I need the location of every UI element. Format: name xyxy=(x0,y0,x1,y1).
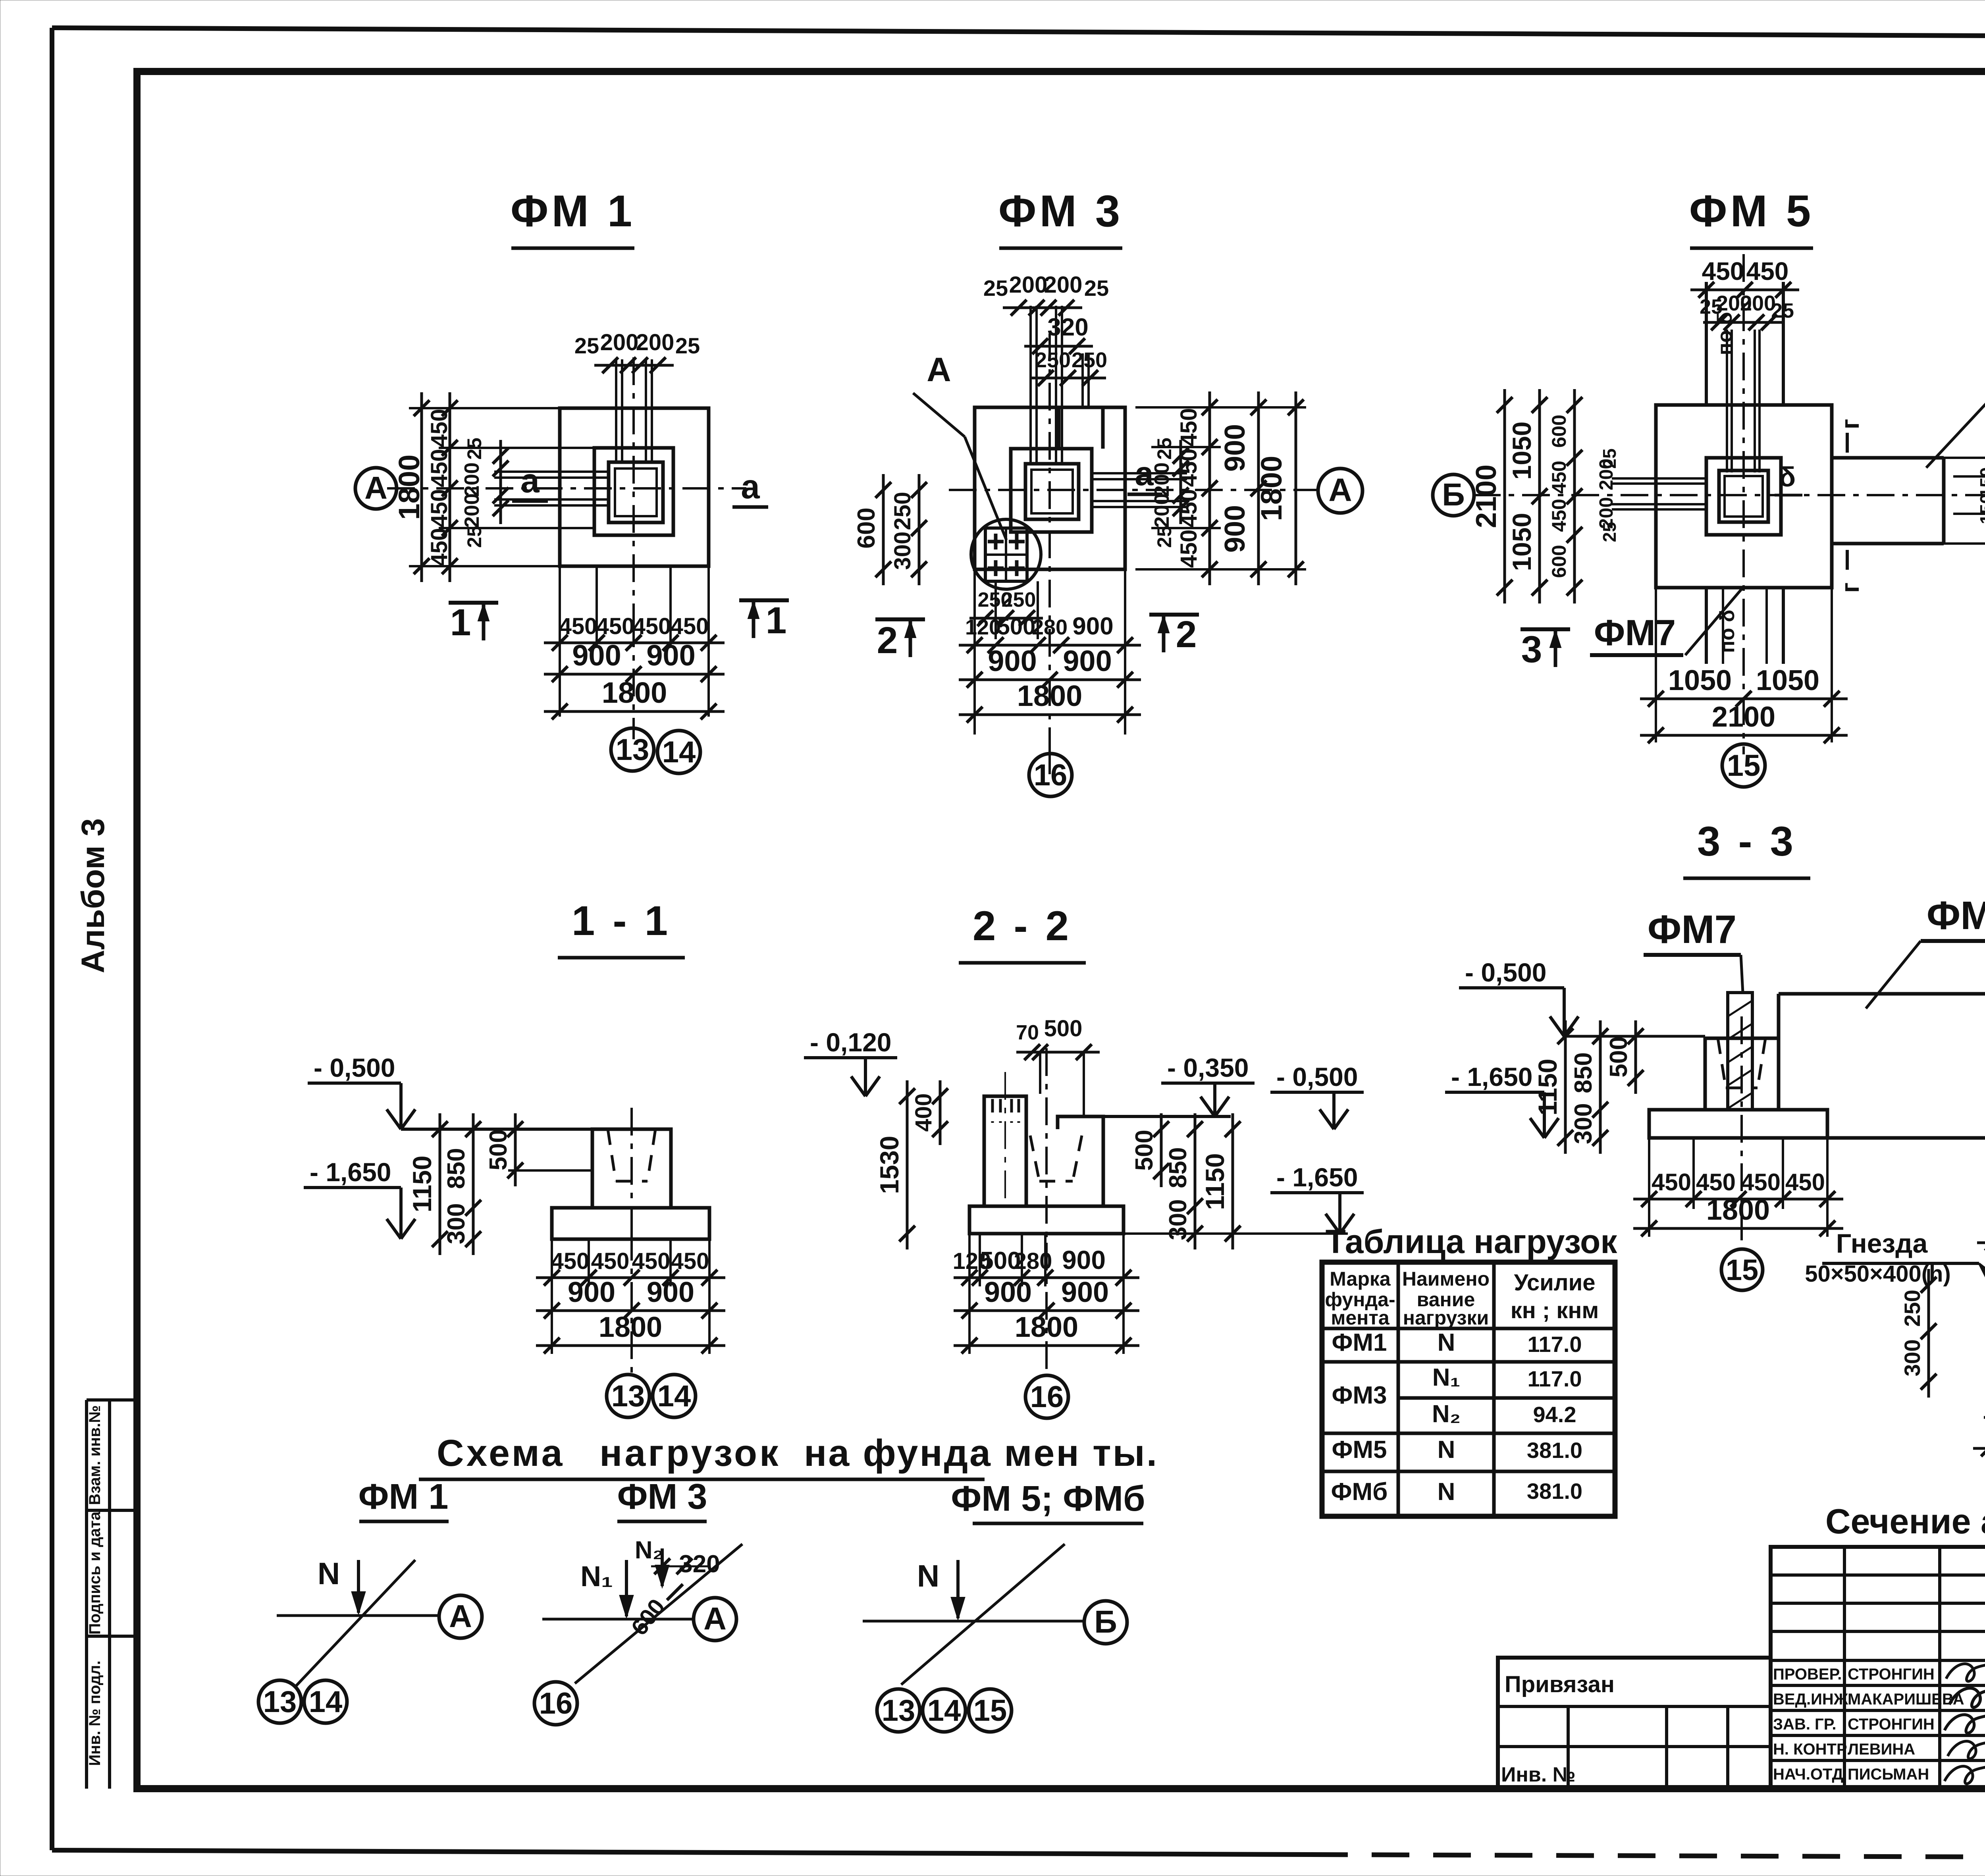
svg-text:3 - 3: 3 - 3 xyxy=(1697,818,1796,865)
svg-text:1800: 1800 xyxy=(602,676,667,709)
svg-text:200: 200 xyxy=(1151,463,1174,497)
svg-text:- 0,500: - 0,500 xyxy=(314,1053,395,1082)
svg-text:450: 450 xyxy=(633,613,671,639)
svg-text:1050: 1050 xyxy=(1668,665,1732,696)
svg-text:1800: 1800 xyxy=(1255,456,1288,521)
svg-text:500: 500 xyxy=(1131,1130,1158,1170)
svg-text:N: N xyxy=(1438,1329,1455,1356)
svg-text:кн ; кнм: кн ; кнм xyxy=(1511,1298,1599,1323)
svg-text:200: 200 xyxy=(461,463,484,497)
svg-text:15: 15 xyxy=(1727,749,1761,783)
svg-text:450: 450 xyxy=(426,489,452,528)
svg-text:25: 25 xyxy=(1153,438,1176,460)
svg-text:14: 14 xyxy=(927,1694,961,1728)
svg-text:117.0: 117.0 xyxy=(1527,1366,1582,1391)
svg-text:Н. КОНТР: Н. КОНТР xyxy=(1773,1741,1847,1758)
svg-text:1150: 1150 xyxy=(1533,1059,1562,1115)
svg-text:900: 900 xyxy=(647,1276,694,1308)
svg-text:450: 450 xyxy=(1785,1169,1825,1195)
svg-text:Б: Б xyxy=(1094,1604,1117,1639)
svg-text:450: 450 xyxy=(1176,489,1202,528)
svg-text:450: 450 xyxy=(1741,1169,1781,1195)
svg-text:25: 25 xyxy=(1599,522,1620,542)
svg-text:25: 25 xyxy=(463,526,486,548)
svg-text:1050: 1050 xyxy=(1507,513,1536,571)
svg-text:ФМ7: ФМ7 xyxy=(1648,907,1736,952)
svg-text:600: 600 xyxy=(1548,415,1570,447)
svg-text:СТРОНГИН: СТРОНГИН xyxy=(1848,1716,1935,1733)
svg-text:500: 500 xyxy=(1044,1016,1083,1041)
svg-text:200: 200 xyxy=(1044,272,1083,298)
svg-text:14: 14 xyxy=(657,1379,691,1413)
svg-text:450: 450 xyxy=(559,613,597,639)
svg-text:450: 450 xyxy=(671,1248,709,1274)
svg-text:150: 150 xyxy=(1976,494,1985,524)
svg-text:850: 850 xyxy=(443,1148,470,1189)
svg-text:300: 300 xyxy=(1900,1339,1925,1376)
svg-text:N: N xyxy=(917,1558,939,1593)
svg-text:381.0: 381.0 xyxy=(1527,1479,1582,1504)
svg-text:А: А xyxy=(927,351,951,389)
svg-text:450: 450 xyxy=(1696,1169,1736,1195)
svg-text:- 0,500: - 0,500 xyxy=(1276,1062,1358,1091)
svg-text:900: 900 xyxy=(572,639,621,672)
svg-text:Инв. №: Инв. № xyxy=(1501,1763,1576,1786)
svg-text:2: 2 xyxy=(877,619,898,661)
svg-text:900: 900 xyxy=(1063,644,1112,677)
svg-text:Взам. инв.№: Взам. инв.№ xyxy=(86,1405,104,1505)
svg-text:16: 16 xyxy=(1030,1380,1064,1414)
svg-text:400: 400 xyxy=(911,1093,937,1132)
svg-text:- 0,500: - 0,500 xyxy=(1465,958,1546,987)
svg-text:16: 16 xyxy=(539,1687,573,1720)
svg-text:Сечение а-а, б-б ; г-г; д-д: Сечение а-а, б-б ; г-г; д-д см лист 7. xyxy=(1825,1502,1985,1541)
svg-text:450: 450 xyxy=(426,409,452,447)
svg-text:120: 120 xyxy=(965,615,1001,639)
svg-text:600: 600 xyxy=(853,507,880,548)
svg-text:ФМ5: ФМ5 xyxy=(1332,1436,1387,1463)
svg-text:- 1,650: - 1,650 xyxy=(1276,1163,1358,1192)
svg-text:Подпись и дата: Подпись и дата xyxy=(86,1511,104,1635)
svg-text:по δ: по δ xyxy=(1713,312,1736,355)
svg-text:13: 13 xyxy=(616,733,649,767)
svg-text:ФМ 5: ФМ 5 xyxy=(1689,186,1814,236)
svg-text:Наимено: Наимено xyxy=(1402,1268,1490,1290)
svg-text:1800: 1800 xyxy=(1706,1194,1770,1226)
svg-text:2 - 2: 2 - 2 xyxy=(973,903,1072,949)
svg-text:Марка: Марка xyxy=(1330,1268,1391,1290)
svg-text:ФМ 1: ФМ 1 xyxy=(358,1477,449,1517)
svg-text:200: 200 xyxy=(1009,272,1048,298)
svg-text:117.0: 117.0 xyxy=(1527,1332,1582,1357)
svg-text:1 - 1: 1 - 1 xyxy=(572,898,671,944)
svg-text:нагрузки: нагрузки xyxy=(1403,1307,1489,1329)
svg-text:N: N xyxy=(318,1556,340,1591)
svg-text:450: 450 xyxy=(591,1248,630,1274)
svg-text:СТРОНГИН: СТРОНГИН xyxy=(1848,1666,1935,1683)
svg-text:450: 450 xyxy=(426,528,452,567)
svg-text:НАЧ.ОТД: НАЧ.ОТД xyxy=(1773,1766,1843,1783)
svg-text:15: 15 xyxy=(1726,1253,1758,1286)
svg-text:ФМ 3: ФМ 3 xyxy=(998,186,1123,236)
svg-text:850: 850 xyxy=(1164,1147,1192,1188)
svg-text:150: 150 xyxy=(1976,467,1985,498)
svg-text:900: 900 xyxy=(1219,424,1251,472)
svg-text:ФМ 5; ФМб: ФМ 5; ФМб xyxy=(951,1479,1145,1519)
svg-text:25: 25 xyxy=(675,333,700,358)
svg-text:1800: 1800 xyxy=(393,455,426,520)
svg-text:200: 200 xyxy=(1151,494,1174,528)
svg-text:А: А xyxy=(449,1598,472,1634)
svg-text:900: 900 xyxy=(988,644,1037,677)
svg-text:А: А xyxy=(364,470,387,505)
svg-text:200: 200 xyxy=(461,494,484,528)
svg-text:ФМ7: ФМ7 xyxy=(1594,613,1676,653)
svg-text:ФМ3: ФМ3 xyxy=(1332,1382,1387,1409)
svg-text:14: 14 xyxy=(309,1685,343,1719)
svg-text:2100: 2100 xyxy=(1470,465,1502,528)
svg-text:250: 250 xyxy=(1002,588,1036,611)
svg-text:Б: Б xyxy=(1442,477,1465,512)
svg-text:ПИСЬМАН: ПИСЬМАН xyxy=(1848,1766,1929,1783)
svg-text:г: г xyxy=(1836,582,1864,593)
svg-text:ФМ 1: ФМ 1 xyxy=(511,186,635,236)
svg-text:2: 2 xyxy=(1176,613,1197,656)
svg-text:900: 900 xyxy=(568,1276,615,1308)
svg-text:N₁: N₁ xyxy=(1432,1364,1460,1391)
svg-text:Гнезда: Гнезда xyxy=(1836,1228,1928,1259)
svg-text:а: а xyxy=(520,462,540,500)
svg-text:ФМ 3: ФМ 3 xyxy=(617,1477,707,1517)
svg-text:25: 25 xyxy=(574,333,599,358)
svg-text:1150: 1150 xyxy=(407,1155,437,1212)
svg-text:900: 900 xyxy=(1062,1245,1106,1274)
svg-text:13: 13 xyxy=(882,1694,915,1728)
svg-text:- 1,650: - 1,650 xyxy=(1451,1062,1532,1091)
svg-text:200: 200 xyxy=(1740,291,1776,315)
svg-text:900: 900 xyxy=(1061,1276,1109,1308)
svg-text:N₂: N₂ xyxy=(635,1537,663,1564)
svg-text:450: 450 xyxy=(1176,530,1202,568)
svg-text:70: 70 xyxy=(1016,1021,1039,1044)
svg-text:500: 500 xyxy=(485,1129,512,1170)
svg-text:300: 300 xyxy=(1164,1199,1192,1240)
svg-text:25: 25 xyxy=(983,276,1008,301)
svg-text:300: 300 xyxy=(890,532,915,570)
svg-text:мента: мента xyxy=(1331,1307,1389,1329)
svg-text:450: 450 xyxy=(551,1248,590,1274)
svg-text:- 1,650: - 1,650 xyxy=(310,1157,391,1187)
svg-text:16: 16 xyxy=(1034,758,1068,792)
svg-text:1530: 1530 xyxy=(875,1136,904,1194)
svg-text:N₂: N₂ xyxy=(1432,1400,1461,1428)
svg-text:- 0,350: - 0,350 xyxy=(1167,1053,1249,1082)
svg-text:381.0: 381.0 xyxy=(1527,1438,1582,1463)
svg-text:ВЕД.ИНЖ: ВЕД.ИНЖ xyxy=(1773,1691,1848,1708)
svg-text:2100: 2100 xyxy=(1712,701,1775,733)
svg-text:МАКАРИШЕВА: МАКАРИШЕВА xyxy=(1848,1691,1964,1708)
svg-text:250: 250 xyxy=(1072,348,1107,372)
svg-text:450: 450 xyxy=(1652,1169,1691,1195)
svg-text:450: 450 xyxy=(426,449,452,488)
svg-text:N: N xyxy=(1438,1436,1455,1463)
svg-text:ЗАВ. ГР.: ЗАВ. ГР. xyxy=(1773,1716,1837,1733)
svg-text:200: 200 xyxy=(1596,459,1617,490)
svg-text:450: 450 xyxy=(1548,461,1570,494)
svg-text:1050: 1050 xyxy=(1756,665,1819,696)
svg-text:а: а xyxy=(741,468,760,506)
svg-text:25: 25 xyxy=(1153,526,1176,548)
svg-text:Альбом 3: Альбом 3 xyxy=(75,818,111,973)
svg-text:600: 600 xyxy=(1548,545,1570,578)
svg-text:450: 450 xyxy=(596,613,635,639)
svg-text:300: 300 xyxy=(1570,1103,1597,1144)
svg-text:200: 200 xyxy=(636,330,675,355)
svg-text:ЛЕВИНА: ЛЕВИНА xyxy=(1848,1741,1915,1758)
svg-text:25: 25 xyxy=(1084,276,1109,301)
svg-text:1800: 1800 xyxy=(1017,679,1083,712)
svg-text:1: 1 xyxy=(450,602,471,644)
svg-text:3: 3 xyxy=(1521,629,1542,671)
svg-text:250: 250 xyxy=(890,492,915,530)
svg-text:1: 1 xyxy=(766,600,787,642)
svg-text:900: 900 xyxy=(646,639,695,672)
svg-text:14: 14 xyxy=(662,735,696,769)
svg-text:ФМ7: ФМ7 xyxy=(1927,893,1985,938)
svg-text:А: А xyxy=(1328,472,1352,508)
svg-text:850: 850 xyxy=(1570,1052,1597,1093)
svg-text:Схема: Схема xyxy=(437,1432,565,1474)
svg-text:1050: 1050 xyxy=(1507,422,1536,480)
svg-text:Привязан: Привязан xyxy=(1505,1672,1615,1697)
svg-text:Таблица нагрузок: Таблица нагрузок xyxy=(1326,1223,1618,1260)
svg-text:г: г xyxy=(1836,419,1864,430)
svg-text:450: 450 xyxy=(632,1248,671,1274)
svg-text:450: 450 xyxy=(1548,499,1570,532)
svg-text:N: N xyxy=(1438,1478,1455,1506)
svg-text:Инв. № подл.: Инв. № подл. xyxy=(86,1660,104,1766)
svg-text:500: 500 xyxy=(997,614,1036,640)
svg-text:нагрузок: нагрузок xyxy=(599,1432,781,1474)
svg-text:на фунда мен ты.: на фунда мен ты. xyxy=(804,1432,1158,1474)
svg-text:250: 250 xyxy=(1035,348,1071,372)
svg-text:Усилие: Усилие xyxy=(1514,1270,1595,1296)
svg-text:900: 900 xyxy=(1219,505,1251,553)
svg-text:13: 13 xyxy=(263,1685,297,1719)
svg-text:13: 13 xyxy=(611,1379,645,1413)
svg-text:450: 450 xyxy=(1176,408,1202,447)
svg-text:1150: 1150 xyxy=(1200,1153,1230,1210)
svg-text:450: 450 xyxy=(671,613,709,639)
svg-text:900: 900 xyxy=(984,1276,1032,1308)
svg-text:25: 25 xyxy=(463,438,486,460)
svg-text:А: А xyxy=(703,1601,727,1636)
svg-text:ПРОВЕР.: ПРОВЕР. xyxy=(1773,1666,1842,1683)
svg-text:320: 320 xyxy=(1047,314,1088,341)
svg-text:δ: δ xyxy=(1779,461,1796,492)
svg-text:ФМ1: ФМ1 xyxy=(1332,1329,1387,1356)
svg-text:900: 900 xyxy=(1072,613,1113,640)
svg-text:300: 300 xyxy=(443,1203,470,1244)
svg-text:450: 450 xyxy=(1702,257,1744,285)
svg-text:450: 450 xyxy=(1176,449,1202,487)
svg-text:15: 15 xyxy=(973,1694,1007,1728)
svg-text:- 0,120: - 0,120 xyxy=(810,1028,891,1057)
svg-text:ФМб: ФМб xyxy=(1331,1478,1388,1506)
svg-text:450: 450 xyxy=(1746,257,1789,285)
svg-text:200: 200 xyxy=(600,330,639,355)
svg-text:500: 500 xyxy=(1605,1036,1632,1077)
svg-text:94.2: 94.2 xyxy=(1533,1402,1576,1427)
svg-text:280: 280 xyxy=(1032,615,1068,639)
svg-text:1800: 1800 xyxy=(599,1311,662,1343)
svg-text:N₁: N₁ xyxy=(580,1561,613,1593)
svg-text:250: 250 xyxy=(1900,1290,1925,1327)
